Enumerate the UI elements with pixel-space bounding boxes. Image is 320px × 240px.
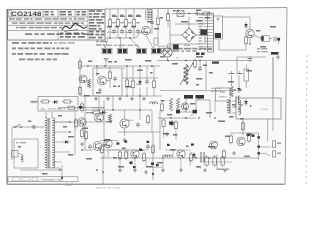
junction h3 xyxy=(199,60,201,62)
wire Q3 base xyxy=(136,31,142,39)
gnd audio 163 xyxy=(161,168,165,172)
wire yoke drop2 xyxy=(242,119,244,135)
wire to box D xyxy=(146,35,153,48)
title cell text c xyxy=(77,11,87,15)
transformer T1 right winding xyxy=(53,118,55,168)
wire rail2 drop xyxy=(188,17,190,25)
transistor Q12 xyxy=(78,118,86,126)
wire x152 sync xyxy=(151,110,153,132)
page left edge xyxy=(6,9,8,184)
resistor R12 xyxy=(124,18,127,29)
transformer T1 core xyxy=(48,118,50,168)
wire drop IF2 xyxy=(117,9,119,20)
wire bridge top xyxy=(188,24,190,28)
value label 40 xyxy=(229,116,234,118)
notes paragraph line 1 xyxy=(12,42,75,44)
wire bus drop x168 xyxy=(167,9,169,14)
svg-text:AIRLINE GM-1453A: AIRLINE GM-1453A xyxy=(96,187,121,190)
alignment point box A xyxy=(102,48,112,54)
value label 27 xyxy=(160,56,165,58)
wire IF4 lower xyxy=(133,28,135,38)
notes paragraph line 2 xyxy=(12,48,69,50)
wire jack leads xyxy=(259,147,271,156)
value label 28 xyxy=(172,63,178,65)
value label 33 xyxy=(228,81,234,83)
capacitor C41 xyxy=(145,79,149,85)
IF labels row xyxy=(107,31,151,34)
wire Q20 xyxy=(107,148,109,158)
wire C12 xyxy=(151,9,153,34)
resistor R63 xyxy=(162,118,165,129)
electrolytic C30 xyxy=(261,36,272,42)
resistor R94 h xyxy=(66,106,77,109)
value label 47 xyxy=(157,162,163,164)
wire T1 top xyxy=(46,112,52,118)
title sub row right xyxy=(60,33,85,38)
junction 0 xyxy=(109,37,110,38)
yoke winding xyxy=(239,100,241,115)
sync rail wire xyxy=(85,109,152,111)
value label 22 xyxy=(126,86,132,88)
bridge top rail wire xyxy=(175,23,205,25)
coil L20 xyxy=(163,155,172,157)
label module b xyxy=(212,62,219,64)
value label 2 xyxy=(128,16,133,18)
RF labels xyxy=(123,68,142,86)
value label 13 xyxy=(205,17,210,19)
wire x273 vert xyxy=(272,58,274,99)
junction 5 xyxy=(98,109,99,110)
resistor R70 xyxy=(100,144,103,155)
blob vj2 xyxy=(193,110,198,114)
junction 10 xyxy=(119,157,120,158)
resistor R77 xyxy=(222,149,225,160)
title left tab xyxy=(9,11,12,17)
resistor R76c xyxy=(221,155,224,167)
title row text 1 xyxy=(9,18,85,19)
small box x154 xyxy=(154,38,158,45)
h labels xyxy=(158,46,179,60)
value label 41 xyxy=(173,134,177,136)
hsec label row2 xyxy=(162,50,197,52)
resistor R50 xyxy=(193,59,196,70)
gnd RF 132 xyxy=(130,97,134,101)
arrow x153 xyxy=(152,173,155,176)
title cell text a xyxy=(45,11,54,15)
capacitor C50 xyxy=(198,66,202,72)
gnd audio 120 xyxy=(118,168,122,172)
wire T1 bottom xyxy=(46,168,60,170)
junction h2 xyxy=(185,60,187,62)
junction h1 xyxy=(167,60,169,62)
value label 16 xyxy=(88,61,92,63)
transformer T1 left winding xyxy=(45,118,47,168)
resistor R21 xyxy=(166,12,169,23)
value label 63 xyxy=(86,158,92,160)
junction sync xyxy=(112,109,114,111)
value label 44 xyxy=(113,157,117,159)
value label 14 xyxy=(181,21,188,23)
PS text xyxy=(41,108,65,111)
wire bridge left xyxy=(170,34,182,36)
capacitor C11 xyxy=(120,29,124,35)
gnd RF 144 xyxy=(142,97,146,101)
value label 66 xyxy=(256,30,260,32)
cap T1b xyxy=(237,71,243,74)
wire IF3 lower xyxy=(125,28,127,38)
T1 sec stubs xyxy=(54,122,71,162)
notes paragraph line 4 xyxy=(19,59,57,61)
resistor R91 h xyxy=(62,100,73,103)
value label 31 xyxy=(209,72,213,74)
junction 13 xyxy=(195,157,196,158)
width coil L12 xyxy=(180,62,194,85)
diode CR2 xyxy=(244,22,248,29)
thermistor RT1 xyxy=(201,30,208,36)
film edge dashed xyxy=(306,55,307,185)
resistor R22 h xyxy=(201,12,212,15)
value label 70 xyxy=(240,118,244,120)
junction 6 xyxy=(139,109,140,110)
transistor Q11 xyxy=(98,76,107,85)
gnd audio 135 xyxy=(133,168,137,172)
zigzag R43 xyxy=(108,114,111,123)
diode CR15 xyxy=(52,100,59,104)
wire sync v1 xyxy=(124,110,126,136)
paper grain xyxy=(8,7,287,184)
value label 4 xyxy=(107,26,112,28)
value label 6 xyxy=(123,26,127,28)
value label 24 xyxy=(150,72,153,74)
wire x206 vert xyxy=(205,61,207,90)
value label 7 xyxy=(131,26,136,28)
resistor R82 xyxy=(241,121,244,132)
rect box PS xyxy=(38,97,78,112)
wire x104 vert xyxy=(103,100,105,158)
resistor R32 xyxy=(78,86,81,97)
value label 26 xyxy=(96,92,101,94)
value label 51 xyxy=(225,136,230,138)
gnd left sync xyxy=(80,142,84,146)
cap C81 xyxy=(88,144,92,150)
sync rail 2 wire xyxy=(118,131,160,133)
value label 68 xyxy=(270,26,276,28)
audio top wire xyxy=(100,140,118,142)
value label 8 xyxy=(147,21,153,23)
audio rail2 wire xyxy=(100,149,148,151)
resistor R93 xyxy=(84,130,87,141)
resistor R42 h xyxy=(91,111,102,114)
capacitor C31 xyxy=(274,37,280,42)
wire drop IF1 xyxy=(109,9,111,20)
wire x85 vert xyxy=(84,96,86,150)
legend strip xyxy=(8,177,78,186)
gnd sync mid xyxy=(123,138,127,142)
transistor Q21 xyxy=(131,150,139,158)
freq text xyxy=(211,88,221,93)
junction dot x140 xyxy=(139,65,141,67)
resistor R74 xyxy=(151,144,154,155)
transistor Q5 SCR xyxy=(163,44,172,57)
cap pair C60 xyxy=(236,96,239,104)
resistor R34 xyxy=(108,70,111,81)
cap C80 xyxy=(31,125,37,129)
value label 57 xyxy=(68,136,74,138)
value label 1 xyxy=(120,16,125,18)
yoke box outline xyxy=(236,98,281,119)
diode CR3 xyxy=(138,79,142,86)
title row text 3 xyxy=(16,27,62,29)
wire RT1 down xyxy=(204,35,206,44)
value label 59 xyxy=(28,121,31,123)
gnd audio 205 xyxy=(203,168,207,172)
transistor Q10 xyxy=(79,75,87,83)
value label 38 xyxy=(206,112,212,114)
value label 53 xyxy=(146,166,153,168)
resistor R36 xyxy=(131,79,134,90)
wire to box A xyxy=(105,38,108,48)
zigzag R33 xyxy=(87,79,90,88)
wire x99 drop xyxy=(98,96,100,110)
gnd RF 96 xyxy=(94,97,98,101)
wire bus to L5 xyxy=(147,9,150,10)
vert rail wire xyxy=(158,117,196,119)
resistor R90 h xyxy=(40,100,51,103)
bridge lower rail wire xyxy=(168,43,200,45)
value label 56 xyxy=(63,126,67,128)
transistor Q8 xyxy=(246,29,254,37)
value label 32 xyxy=(196,78,202,80)
page number text xyxy=(96,187,121,190)
value label 25 xyxy=(84,95,90,97)
wire box internals xyxy=(97,66,110,88)
crystal Y1 xyxy=(177,11,184,17)
gnd audio out xyxy=(232,151,236,155)
mid rail wire xyxy=(122,77,158,79)
audio out top wire xyxy=(230,132,259,134)
wire T1 right rails xyxy=(54,122,104,150)
wire x237 to yoke box xyxy=(236,57,238,73)
junction 15 xyxy=(69,121,70,122)
wire x140 sync xyxy=(139,96,141,120)
node blob b xyxy=(257,146,260,148)
alignment point box B xyxy=(118,48,128,54)
edge connector J1 xyxy=(199,13,214,52)
value label 12 xyxy=(196,10,201,12)
cap bars C71 xyxy=(201,152,204,162)
value label 52 xyxy=(196,166,201,168)
value label 45 xyxy=(122,148,126,150)
resistor R13 xyxy=(132,18,135,29)
IF module blob xyxy=(215,33,221,38)
resistor R92 xyxy=(74,118,77,129)
gnd in box xyxy=(98,88,102,92)
junction 3 xyxy=(167,13,168,14)
blob vj1 xyxy=(176,110,180,114)
value label 30 xyxy=(203,65,207,67)
resistor R44 xyxy=(146,114,149,125)
value label 60 xyxy=(18,146,21,148)
dark marks under box xyxy=(247,134,255,137)
wire vert drops xyxy=(164,127,176,140)
resistor R41 xyxy=(80,128,83,139)
dark marks audio mid xyxy=(151,163,159,167)
node blob c xyxy=(257,152,260,154)
node blob a xyxy=(257,136,260,138)
flag bar 1 xyxy=(184,95,193,99)
value label 9 xyxy=(154,28,159,30)
top supply bus wire xyxy=(105,8,287,9)
junction dot x105 xyxy=(104,65,106,67)
wire res row xyxy=(200,161,232,163)
wire to box C xyxy=(130,38,139,48)
gnd audio 181 xyxy=(179,168,183,172)
gnd RF 108 xyxy=(106,97,110,101)
wire R15 drop xyxy=(157,9,159,16)
resistor R25 xyxy=(244,35,247,46)
value label 35 xyxy=(161,100,164,102)
junction 4 xyxy=(188,13,189,14)
value label 65 xyxy=(248,134,253,136)
wire x215 vert xyxy=(214,100,216,112)
jack J2 xyxy=(273,141,281,148)
coil L5 xyxy=(146,10,153,20)
value label 48 xyxy=(170,149,176,151)
title block frame xyxy=(8,10,106,41)
value label 46 xyxy=(140,150,143,152)
diode CR4 xyxy=(100,111,107,115)
junction 12 xyxy=(162,157,163,158)
audio rail wire xyxy=(100,157,259,159)
resistor R13 label xyxy=(136,15,140,24)
jack J3 xyxy=(273,151,281,157)
junction dot x88 xyxy=(87,65,89,67)
wire drop IF4 xyxy=(133,9,135,20)
audio out label xyxy=(244,156,250,158)
yoke dot xyxy=(250,105,252,107)
sync labels xyxy=(92,108,135,123)
capacitor C12 xyxy=(128,29,132,35)
junction 8 xyxy=(139,95,140,96)
junction dot x152 xyxy=(151,65,153,67)
value label 21 xyxy=(113,86,120,88)
resistor R76b xyxy=(213,155,216,167)
alignment labels xyxy=(104,46,155,49)
value label 19 xyxy=(145,60,152,62)
resistor R11 label xyxy=(120,15,124,24)
value label 58 xyxy=(82,128,88,130)
value label 23 xyxy=(137,70,143,72)
junction 20 xyxy=(240,89,241,90)
value label 34 xyxy=(196,84,199,86)
plug P1 xyxy=(12,151,23,162)
title row text 2 xyxy=(12,22,84,23)
junction 1 xyxy=(119,37,120,38)
capacitor C13 xyxy=(136,29,140,35)
wire audio tick4 xyxy=(189,158,191,166)
junction 18 xyxy=(198,117,199,118)
bridge rectifier CR1 xyxy=(182,28,196,42)
transistor Q14 xyxy=(181,103,188,110)
value label 43 xyxy=(104,139,110,141)
switch SW1 xyxy=(14,124,22,128)
wire Q8 emitter xyxy=(249,38,250,45)
RF rail wire xyxy=(80,65,160,67)
junction dot x97 xyxy=(96,65,98,67)
resistor R76 xyxy=(205,155,208,167)
right text rows xyxy=(257,48,268,52)
vert wire x170 xyxy=(169,20,171,48)
antenna symbol xyxy=(104,59,109,67)
value label 61 xyxy=(42,173,48,175)
junction 21 xyxy=(234,89,235,90)
value label 69 xyxy=(232,104,236,106)
resistor R10 xyxy=(108,18,111,29)
wire audio tick1 xyxy=(127,150,129,158)
wire x200 comp xyxy=(199,61,201,69)
wire down right xyxy=(278,41,280,44)
audio specks xyxy=(117,141,194,147)
resistor R71 xyxy=(118,150,121,161)
wire x160 vert xyxy=(159,110,161,150)
junction 11 xyxy=(134,157,135,158)
resistor R75 xyxy=(189,152,192,163)
yoke label xyxy=(260,109,269,111)
value label 50 xyxy=(208,146,214,148)
wire flag drops xyxy=(186,99,199,112)
junction dot x127 xyxy=(126,65,128,67)
notes paragraph line 0 xyxy=(25,33,94,35)
AC line wire xyxy=(12,126,44,128)
wire x273 vert xyxy=(272,57,274,131)
coil L10 xyxy=(150,102,158,104)
IF sub labels xyxy=(106,45,139,46)
junction dots vr xyxy=(234,104,242,109)
hdrive rail wire xyxy=(157,60,206,62)
gnd RF 120 xyxy=(118,97,122,101)
reg rail wire xyxy=(58,107,104,109)
gnd vert xyxy=(165,132,169,136)
transistor Q23 xyxy=(210,141,218,149)
value label 49 xyxy=(186,146,189,148)
wire IF1 lower xyxy=(109,28,111,38)
wire audio verts xyxy=(120,154,217,170)
resistor R72 xyxy=(124,150,127,161)
junction 19 xyxy=(214,117,215,118)
label module a xyxy=(196,53,205,56)
junction 17 xyxy=(185,117,186,118)
wire x12 down xyxy=(11,127,13,160)
wire x75 vert xyxy=(74,108,76,155)
cap C70 xyxy=(146,144,150,150)
wire to box E xyxy=(157,26,159,44)
wire x80 vert xyxy=(79,58,81,96)
res row label xyxy=(217,169,229,170)
value label 36 xyxy=(167,114,172,116)
resistor R10 label xyxy=(112,15,116,24)
wire Q8 out xyxy=(254,35,262,39)
gnd sym right xyxy=(276,55,280,59)
gnd audio extra2 xyxy=(223,168,227,172)
RF bottom rail wire xyxy=(80,95,162,97)
wire Q5 down xyxy=(167,57,169,60)
value label 17 xyxy=(108,61,117,63)
capacitor C52 outline xyxy=(244,64,249,88)
resistor R15 xyxy=(156,16,159,27)
diode CR9 xyxy=(237,86,241,93)
junction v2 xyxy=(185,117,187,119)
value label 18 xyxy=(125,59,132,61)
